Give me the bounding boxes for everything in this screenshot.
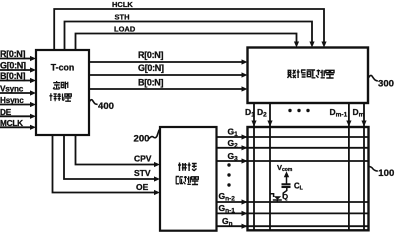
svg-text:Q: Q — [282, 192, 288, 201]
svg-text:STH: STH — [115, 13, 130, 22]
svg-text:Vcom: Vcom — [277, 163, 293, 173]
svg-text:MCLK: MCLK — [0, 119, 23, 128]
svg-text:Hsync: Hsync — [0, 96, 24, 105]
svg-text:G[0:N]: G[0:N] — [0, 61, 26, 71]
svg-text:CPV: CPV — [134, 154, 152, 164]
svg-text:G[0:N]: G[0:N] — [138, 63, 164, 73]
svg-text:Gn-1: Gn-1 — [219, 203, 236, 215]
svg-text:G1: G1 — [228, 127, 239, 139]
svg-text:200: 200 — [134, 134, 150, 145]
svg-text:CL: CL — [294, 181, 304, 191]
svg-text:Dm: Dm — [353, 107, 365, 119]
svg-text:STV: STV — [134, 168, 151, 178]
svg-text:T-con: T-con — [51, 63, 74, 73]
svg-text:Gn-2: Gn-2 — [219, 191, 236, 203]
svg-text:D2: D2 — [257, 107, 267, 119]
svg-text:DE: DE — [0, 108, 12, 117]
svg-text:300: 300 — [378, 78, 394, 89]
svg-text:LOAD: LOAD — [114, 25, 136, 34]
svg-text:100: 100 — [378, 168, 394, 179]
svg-text:B[0:N]: B[0:N] — [138, 78, 163, 88]
svg-text:Dm-1: Dm-1 — [330, 107, 348, 119]
svg-text:G3: G3 — [228, 151, 239, 163]
svg-text:Vsync: Vsync — [0, 85, 24, 94]
svg-text:R[0:N]: R[0:N] — [138, 50, 163, 60]
svg-text:B[0:N]: B[0:N] — [0, 71, 25, 81]
svg-text:G2: G2 — [228, 138, 239, 150]
svg-text:400: 400 — [98, 101, 114, 112]
svg-text:Gn: Gn — [222, 216, 233, 228]
svg-text:R[0:N]: R[0:N] — [0, 49, 25, 59]
svg-text:OE: OE — [136, 182, 149, 192]
svg-text:HCLK: HCLK — [112, 0, 133, 9]
